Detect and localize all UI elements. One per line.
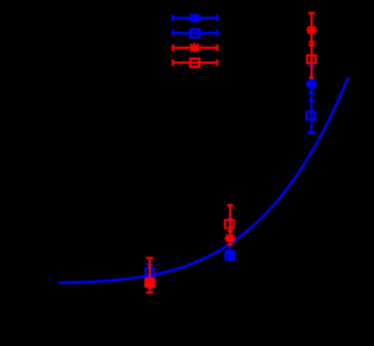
middle cluster: red errorbar line <box>227 205 233 244</box>
left cluster: blue errorbar line <box>146 264 152 284</box>
left cluster: red errorbar line <box>146 258 153 293</box>
right cluster: blue square point <box>306 112 315 120</box>
middle cluster: blue asterisk point <box>224 249 235 258</box>
right cluster: red asterisk point <box>306 25 317 34</box>
middle cluster: red asterisk point <box>225 234 236 243</box>
left cluster: red square point <box>146 279 155 287</box>
legend row 4: red square errorbar sample <box>173 59 217 67</box>
left cluster: blue square point <box>146 269 155 277</box>
legend row 2: blue square errorbar sample <box>173 29 217 37</box>
middle cluster: blue errorbar line <box>227 219 233 261</box>
left cluster: red asterisk point <box>144 279 155 288</box>
right cluster: blue asterisk point <box>306 79 317 88</box>
middle cluster: blue square point <box>226 252 235 260</box>
right cluster: blue errorbar line <box>307 66 315 132</box>
right cluster: red errorbar line <box>308 13 315 78</box>
left cluster: blue asterisk point <box>144 272 155 281</box>
right cluster: red square point <box>307 55 316 63</box>
legend row 1: blue asterisk errorbar sample <box>173 13 217 23</box>
middle cluster: red square point <box>225 220 234 228</box>
fitted curve (blue) <box>59 78 348 283</box>
legend row 3: red asterisk errorbar sample <box>173 43 217 53</box>
